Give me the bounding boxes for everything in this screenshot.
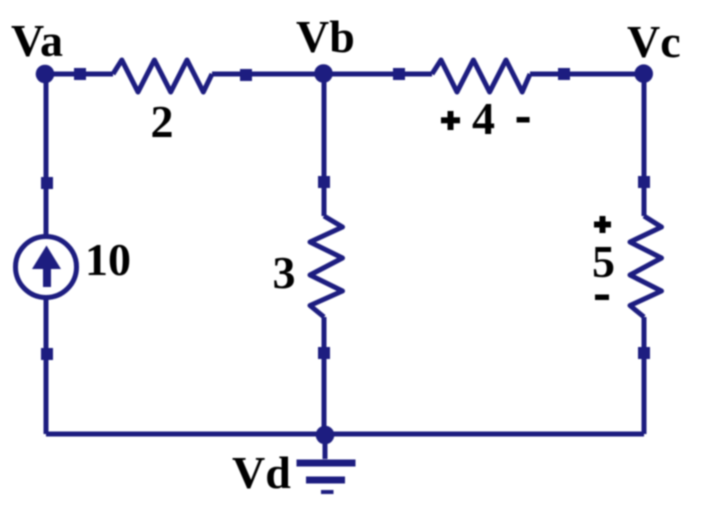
svg-text:Va: Va — [11, 15, 63, 66]
svg-text:Vc: Vc — [627, 16, 681, 67]
svg-text:10: 10 — [85, 234, 131, 285]
svg-text:5: 5 — [592, 236, 615, 287]
svg-text:Vb: Vb — [296, 11, 355, 62]
svg-text:3: 3 — [273, 247, 296, 298]
svg-text:2: 2 — [151, 96, 174, 147]
svg-text:Vd: Vd — [232, 447, 291, 498]
svg-text:4: 4 — [472, 93, 495, 144]
